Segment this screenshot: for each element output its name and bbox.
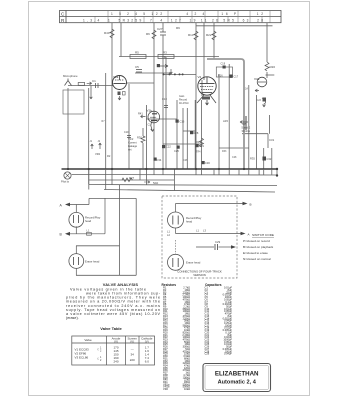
wire bias line x146-177 — [128, 84, 130, 169]
wire grid bus V2 — [68, 85, 113, 87]
svg-text:N=closed on normal: N=closed on normal — [243, 257, 271, 261]
wire switch bus 2 R27 — [89, 179, 175, 181]
svg-text:(V): (V) — [130, 340, 134, 344]
wire erase bus y144 — [146, 118, 177, 120]
svg-text:head: head — [85, 219, 92, 223]
svg-text:VR2: VR2 — [163, 387, 169, 391]
wire drop to C27 — [162, 23, 164, 32]
table row labels C / R — [61, 12, 65, 23]
capacitor C27 — [160, 32, 166, 35]
top component-location table — [60, 11, 282, 23]
svg-text:10kΩ: 10kΩ — [184, 387, 190, 391]
wire erase feed y245 — [76, 245, 120, 247]
svg-text:Erase head: Erase head — [186, 261, 201, 265]
wire — [267, 134, 269, 148]
wire left jack column — [263, 148, 265, 169]
svg-text:Current: Current — [128, 141, 137, 145]
wire head drop x119 — [119, 185, 121, 276]
pilot lamp — [64, 172, 71, 179]
wire transformer core bar 2 — [242, 133, 268, 135]
four-track dashed box — [162, 196, 237, 278]
valve analysis paragraph — [66, 287, 161, 320]
wires below rail bundle — [72, 169, 277, 275]
capacitors list — [205, 286, 233, 356]
capacitor C1 — [96, 83, 99, 88]
wire drop R20 — [266, 23, 268, 62]
wire switch bus 3 — [89, 185, 277, 186]
svg-text:2A: 2A — [245, 88, 248, 91]
svg-text:Valve: Valve — [84, 338, 92, 342]
svg-text:R40: R40 — [104, 31, 110, 35]
wire screened (thick grey) — [207, 59, 244, 169]
svg-text:C19: C19 — [221, 63, 226, 66]
wire drop x166 — [201, 80, 203, 96]
svg-text:V2: V2 — [198, 75, 202, 79]
wire rail stub x263 — [263, 169, 265, 175]
resistor R22 — [212, 31, 216, 40]
svg-text:R5: R5 — [135, 51, 139, 55]
svg-text:B: B — [250, 203, 252, 207]
svg-text:VR: VR — [162, 55, 166, 59]
wire — [245, 116, 247, 130]
wire/arrow B 4track — [175, 204, 177, 213]
wire transformer tap up — [88, 88, 90, 184]
valve V3a — [257, 77, 267, 87]
wire rail stub x146 — [145, 169, 147, 185]
svg-text:Valve Table: Valve Table — [100, 326, 122, 331]
wire rail stub x105 — [105, 169, 107, 190]
capacitor C29 wire — [196, 246, 214, 248]
svg-text:C10: C10 — [162, 97, 167, 101]
svg-text:C10: C10 — [124, 131, 129, 134]
wire rail stub x219 — [218, 169, 220, 175]
record/play head main — [69, 212, 84, 227]
wire drop oscillator net — [182, 108, 184, 169]
svg-text:(V): (V) — [114, 340, 118, 344]
erase head 4track — [168, 254, 184, 270]
resistor R30 — [141, 136, 145, 143]
svg-text:set: set — [128, 148, 132, 152]
wire transformer core bar 1 — [105, 73, 107, 169]
svg-text:30 ohm: 30 ohm — [242, 129, 251, 133]
resistor R5 box — [130, 55, 146, 59]
wire/arrow A 4track — [175, 228, 177, 234]
wire drop x271 — [248, 85, 250, 169]
record/play head 4track — [168, 212, 184, 228]
capacitor C23 — [263, 98, 267, 102]
wire rail stub x259 — [258, 169, 260, 175]
svg-text:V3 ECL86: V3 ECL86 — [75, 356, 89, 360]
svg-text:6.0: 6.0 — [145, 360, 150, 364]
wire HT drop R4 feed — [111, 23, 113, 169]
svg-text:C26: C26 — [183, 159, 188, 162]
wire rail stub x201 — [201, 169, 203, 175]
wire head link y198 — [89, 197, 136, 199]
capacitor blobs midband — [162, 145, 165, 148]
svg-text:R30: R30 — [137, 136, 142, 140]
svg-text:C29: C29 — [215, 240, 221, 244]
svg-text:Pilot la: Pilot la — [61, 180, 69, 184]
wire drop coupling box — [194, 100, 196, 169]
svg-text:C16: C16 — [180, 120, 185, 124]
resistor R20 — [265, 62, 269, 71]
title box — [203, 364, 271, 392]
svg-text:C31: C31 — [269, 138, 275, 142]
svg-text:5 and 2: 5 and 2 — [242, 126, 251, 130]
svg-text:head: head — [186, 220, 193, 224]
wire volume bus — [203, 23, 205, 80]
svg-text:40-47kΩ: 40-47kΩ — [179, 102, 189, 105]
svg-text:A15: A15 — [223, 119, 228, 123]
wire rail end corner — [276, 170, 278, 177]
svg-text:R31: R31 — [196, 140, 201, 144]
wire rail stub x239 — [238, 169, 240, 175]
capacitor C5 — [136, 70, 142, 73]
svg-text:V3a: V3a — [254, 77, 260, 81]
resistors list — [163, 286, 190, 391]
svg-text:TR4: TR4 — [196, 151, 201, 154]
rect input jack box — [271, 148, 273, 169]
wire rail stub x229 — [228, 169, 230, 175]
wire rail stub x271 — [271, 169, 273, 175]
test point arrows — [91, 144, 94, 149]
wire drop x263 — [228, 64, 230, 169]
resistor R27 — [122, 178, 133, 182]
svg-text:R20: R20 — [270, 65, 276, 69]
wire drop to anode line — [120, 23, 122, 57]
wire rail stub x112 — [111, 169, 113, 185]
svg-text:leakage: leakage — [128, 144, 138, 148]
svg-text:Microphone: Microphone — [63, 74, 78, 78]
wire transformer secondary — [165, 57, 167, 169]
wire rail stub x163 — [162, 169, 164, 175]
wire rail stub x214 — [213, 169, 215, 175]
erase head main — [69, 254, 84, 269]
svg-text:C17: C17 — [234, 76, 239, 79]
svg-text:C32: C32 — [267, 157, 272, 161]
svg-text:(V): (V) — [145, 340, 149, 344]
resistor R40 — [110, 29, 114, 38]
resistor R6 — [152, 30, 156, 39]
svg-text:ELIZABETHAN: ELIZABETHAN — [215, 371, 259, 378]
svg-text:{: { — [98, 357, 99, 361]
switch code note — [243, 233, 274, 261]
svg-text:R28: R28 — [194, 131, 199, 135]
svg-text:B=closed on playback: B=closed on playback — [243, 245, 274, 249]
wire rail stub x196 — [195, 169, 197, 175]
svg-text:R33: R33 — [222, 150, 227, 153]
wire drop x256 — [266, 74, 275, 76]
wire drop x229 — [201, 100, 203, 169]
wire rail stub x154 — [153, 169, 155, 175]
capacitor C17 — [230, 75, 233, 78]
svg-text:VALVE ANALYSIS: VALVE ANALYSIS — [103, 282, 139, 287]
svg-text:C1: C1 — [92, 79, 96, 83]
svg-text:R3: R3 — [163, 51, 167, 55]
svg-text:R6: R6 — [146, 32, 150, 36]
wire drop x187 — [176, 100, 178, 169]
svg-text:34: 34 — [131, 353, 135, 357]
wire C27 lower lead — [162, 36, 164, 170]
svg-text:SWITCH CODE: SWITCH CODE — [252, 233, 274, 237]
microphone jack — [65, 79, 72, 86]
svg-text:V1a: V1a — [113, 75, 119, 79]
wire — [269, 115, 271, 134]
resistor R13 — [194, 31, 198, 40]
wire C31 hook — [256, 95, 258, 169]
resistor R3 box — [158, 55, 174, 59]
wire mic stub x91 — [139, 169, 141, 180]
wire drop V1 screen — [153, 23, 155, 169]
svg-text:R27: R27 — [129, 176, 135, 180]
svg-text:A: A — [248, 233, 250, 237]
wire rail stub x88 — [88, 169, 90, 190]
wire drop x174 — [219, 147, 249, 149]
svg-text:C27: C27 — [157, 27, 163, 31]
wire drop output net — [218, 74, 220, 169]
svg-text:C30: C30 — [205, 161, 210, 165]
wire microphone input — [119, 56, 219, 58]
svg-text:R22: R22 — [206, 33, 212, 37]
wire main HT/chassis rail — [62, 168, 278, 170]
svg-text:C25: C25 — [174, 149, 179, 153]
svg-text:52Ω: 52Ω — [153, 181, 158, 185]
svg-text:C28: C28 — [232, 156, 237, 159]
svg-text:C22: C22 — [166, 145, 171, 149]
svg-text:VERSION: VERSION — [193, 273, 206, 277]
svg-text:VR2: VR2 — [95, 152, 101, 156]
wire anode load line — [196, 25, 273, 27]
wire drop x183 — [145, 105, 147, 169]
wire drop C16 net — [163, 74, 196, 76]
svg-text:C34: C34 — [157, 158, 162, 162]
svg-text:R41: R41 — [138, 112, 143, 116]
wire erase return y275 — [76, 274, 136, 276]
wire drop x201 — [186, 108, 188, 169]
schematic wires — [63, 23, 274, 191]
wire drop x140 — [163, 143, 201, 145]
junction dots on rail — [67, 168, 278, 177]
note V1/2 control leakage — [128, 137, 138, 152]
wire switch bus 1 — [72, 174, 277, 177]
valve V2 — [198, 77, 216, 95]
svg-text:C5: C5 — [135, 65, 139, 69]
svg-text:{: { — [98, 347, 99, 351]
wire drop R22 — [213, 23, 215, 59]
wire drop x146 — [135, 72, 171, 74]
coupling box C19/R16 — [216, 67, 232, 77]
wire top-right link — [266, 72, 268, 78]
wire V3a top link — [90, 86, 92, 100]
wire V2 inner lead — [173, 169, 175, 191]
valve V1A — [113, 76, 127, 90]
svg-text:Erase head: Erase head — [85, 260, 100, 264]
wire line x183-195 — [127, 82, 155, 84]
svg-text:C23: C23 — [257, 99, 262, 102]
wire V1a anode link — [63, 90, 84, 114]
svg-text:a valve voltmeter were 45V (bi: a valve voltmeter were 45V (bias) 10-20V — [66, 312, 161, 316]
wire output bus y148 — [183, 130, 195, 132]
wire V1a cathode drop — [67, 88, 69, 169]
svg-text:R13: R13 — [188, 33, 194, 37]
svg-text:—: — — [131, 347, 134, 351]
svg-text:220: 220 — [130, 358, 135, 362]
svg-text:R9: R9 — [176, 26, 180, 30]
svg-text:Automatic 2, 4: Automatic 2, 4 — [218, 380, 257, 386]
svg-text:(erase).: (erase). — [66, 316, 79, 320]
svg-text:C29: C29 — [205, 352, 210, 356]
svg-text:R35: R35 — [250, 157, 255, 161]
valve table — [72, 336, 155, 365]
wire — [243, 116, 245, 130]
wire switch bus 4 — [104, 190, 275, 193]
svg-text:240: 240 — [113, 360, 118, 364]
svg-text:R16: R16 — [218, 75, 223, 78]
wire head drop x136 — [135, 198, 137, 275]
svg-text:TR5: TR5 — [242, 122, 247, 126]
wire drop R13 — [195, 23, 197, 169]
svg-text:P=closed on record: P=closed on record — [243, 239, 270, 243]
svg-text:E=closed to erase: E=closed to erase — [243, 251, 268, 255]
transformer TR5 note — [242, 122, 251, 133]
svg-text:0.04μF: 0.04μF — [224, 352, 232, 356]
wire rail stub x248 — [248, 169, 250, 175]
svg-text:R2: R2 — [107, 154, 111, 158]
